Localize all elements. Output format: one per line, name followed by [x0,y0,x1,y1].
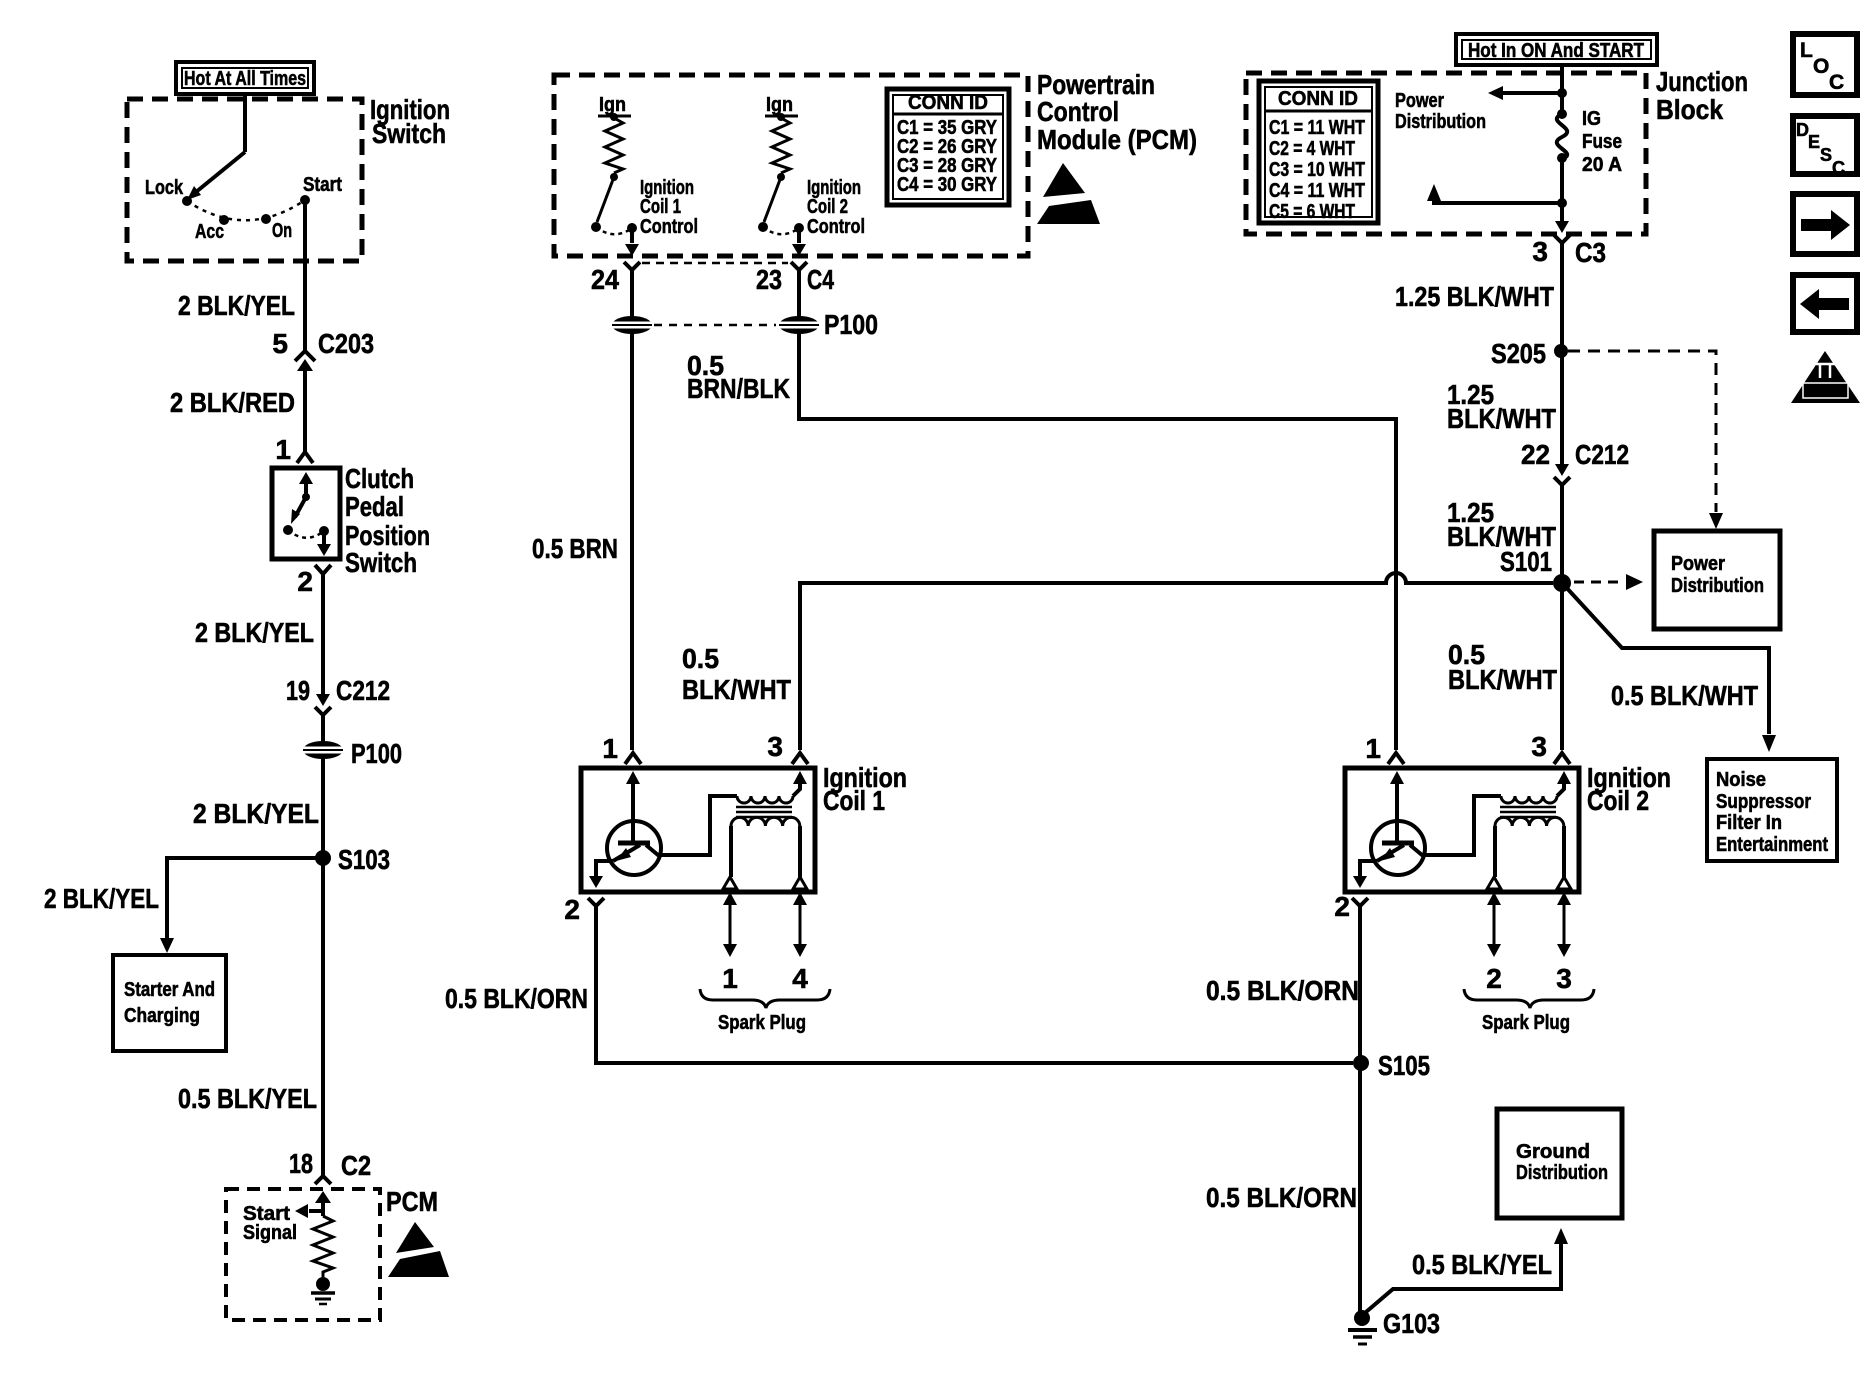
svg-text:Distribution: Distribution [1516,1162,1608,1184]
svg-text:Coil 2: Coil 2 [807,196,848,218]
Start Signal label [243,1203,297,1244]
dashed arrow S101 to Power Distribution [1574,574,1643,590]
svg-text:IG: IG [1582,108,1601,130]
junction node to power distribution arrow [1488,86,1567,100]
coil 2 pin 1 connector [1365,733,1404,764]
wire coil2 pin2 to G103 [1358,906,1362,1311]
svg-text:Block: Block [1656,94,1723,125]
coil 1 pin 3 connector [767,731,808,764]
grommet P100 right [777,309,878,340]
svg-text:Ign: Ign [599,94,626,116]
svg-text:24: 24 [591,264,619,295]
resistor in PCM [313,1216,333,1277]
connector C212 pin 22 [1521,439,1629,485]
svg-text:Coil 2: Coil 2 [1587,785,1649,816]
wire pin2 to C212 [321,574,325,694]
svg-text:BLK/WHT: BLK/WHT [1448,664,1557,695]
svg-text:0.5: 0.5 [682,643,719,674]
wire from Hot At All Times into ignition switch [243,94,247,152]
svg-text:0.5 BLK/WHT: 0.5 BLK/WHT [1611,680,1758,711]
svg-text:1.25 BLK/WHT: 1.25 BLK/WHT [1395,281,1554,312]
pin 1 clutch switch [275,434,313,465]
wire fuse down to exit [1560,158,1564,221]
spark plug brace coil 1 [700,989,830,1034]
svg-text:E: E [1808,132,1820,152]
svg-text:18: 18 [289,1148,313,1179]
svg-text:1: 1 [275,434,291,465]
svg-text:Spark Plug: Spark Plug [718,1012,806,1034]
wire S101 to coil 1 pin 3 (with hop over coil2 wire) [800,573,1553,750]
svg-text:2: 2 [297,566,313,597]
wire P100 to PCM C2 [321,758,325,1175]
svg-text:Noise: Noise [1716,769,1766,791]
svg-text:L: L [1800,39,1813,62]
PCM (bottom) dashed box [226,1189,380,1320]
node S105 [1353,1050,1430,1081]
svg-text:S205: S205 [1491,338,1546,369]
icon DESC [1793,116,1857,178]
svg-text:Distribution: Distribution [1395,111,1486,133]
svg-text:0.5 BLK/YEL: 0.5 BLK/YEL [1412,1249,1552,1280]
fuse IG Fuse 20 A [1557,108,1622,176]
svg-text:C203: C203 [318,328,374,359]
switch driver 2 (coil 2 control) [758,173,806,256]
wire label 1.25 BLK/WHT two lines [1447,497,1556,552]
wire C203 to clutch switch [303,368,307,452]
svg-text:Power: Power [1671,553,1725,575]
svg-text:0.5 BLK/ORN: 0.5 BLK/ORN [1206,1182,1357,1213]
Powertrain Control Module dashed box [554,75,1028,256]
svg-text:Clutch: Clutch [345,463,414,494]
svg-text:Hot In ON And START: Hot In ON And START [1468,40,1644,62]
svg-text:Junction: Junction [1656,66,1748,97]
wire G103 to Ground Distribution [1366,1228,1568,1312]
svg-text:BLK/WHT: BLK/WHT [682,674,791,705]
svg-text:Module (PCM): Module (PCM) [1037,124,1197,155]
wire label 0.5 BLK/WHT coil1 [682,643,791,705]
ground G103 [1348,1308,1440,1344]
grommet P100 left column [301,738,402,769]
svg-text:3: 3 [1532,236,1548,267]
svg-text:Ground: Ground [1516,1141,1590,1163]
junction block dashed box [1246,73,1646,234]
exit arrow at junction box bottom [1555,221,1569,233]
wire C212 to P100 [321,715,325,742]
svg-text:2 BLK/YEL: 2 BLK/YEL [44,883,159,914]
coil 2 spark terminal left [1487,877,1501,889]
svg-text:S101: S101 [1500,546,1552,577]
spark plug lead arrows coil 2 [1486,892,1572,994]
svg-text:Control: Control [1037,96,1119,127]
box Starter And Charging [113,955,226,1051]
svg-text:Coil 1: Coil 1 [823,785,885,816]
node Start [300,195,310,205]
svg-text:0.5 BLK/ORN: 0.5 BLK/ORN [445,983,588,1014]
svg-text:G103: G103 [1383,1308,1440,1339]
wire C3 to S205 [1560,243,1564,464]
transformer T1 in coil 1 [731,771,807,877]
svg-text:19: 19 [286,675,310,706]
label Ignition Coil 1 [823,762,907,816]
grommet face dashed line [654,324,776,327]
icon OBD II triangle [1791,351,1860,403]
svg-text:PCM: PCM [386,1186,438,1217]
svg-text:20 A: 20 A [1582,154,1622,176]
label Ignition Coil 2 Control [807,177,865,238]
svg-text:Distribution: Distribution [1671,575,1764,597]
transformer T2 in coil 2 [1495,771,1571,877]
ground in PCM [311,1277,335,1304]
PCM label Powertrain Control Module [1037,69,1197,155]
wire label 0.5 BRN/BLK [687,350,790,404]
connector C4 pin 24 [591,262,640,295]
svg-text:0.5 BRN: 0.5 BRN [532,533,618,564]
svg-text:1: 1 [722,963,738,994]
node Lock [182,196,192,206]
resistor driver 1 [605,118,623,173]
connector C2 pin 18 [289,1148,371,1184]
clutch pedal position switch box [272,468,340,559]
coil 2 pin 2 connector [1334,891,1368,922]
clutch switch label [345,463,430,578]
connector C212 pin 19 [286,675,390,715]
svg-text:C3 = 10 WHT: C3 = 10 WHT [1269,159,1365,181]
svg-text:S105: S105 [1378,1050,1430,1081]
box Power Distribution (right) [1654,531,1780,629]
svg-text:OBD II: OBD II [1809,386,1843,397]
connector C4 pin 23 [756,262,834,295]
connector C203 pin 5 [272,328,374,371]
svg-text:C2: C2 [341,1150,371,1181]
svg-text:Ign: Ign [766,94,793,116]
svg-text:2: 2 [1486,963,1502,994]
wire Start to C203 [303,200,307,351]
PCM internal start signal circuit [295,1191,331,1218]
ignition switch movable arm (arrow to Lock) [187,152,245,200]
svg-text:S: S [1820,145,1832,165]
svg-text:Power: Power [1395,90,1444,112]
grommet P100 left [610,316,654,334]
svg-text:3: 3 [767,731,783,762]
svg-text:Signal: Signal [243,1222,297,1244]
wire label 0.5 BLK/WHT coil2 [1448,639,1557,695]
svg-text:2: 2 [564,894,580,925]
coil 1 spark terminal right [793,877,807,889]
svg-text:2 BLK/RED: 2 BLK/RED [170,387,295,418]
svg-text:P100: P100 [824,309,878,340]
ESD symbol bottom PCM [388,1222,449,1277]
node S103 [315,844,390,875]
svg-text:Pedal: Pedal [345,491,404,522]
label box "Hot In ON And START" [1456,34,1657,65]
transistor Q1 in coil 1 [589,771,737,888]
svg-text:2: 2 [1334,891,1350,922]
junction node with branch arrow up [1427,184,1567,208]
svg-text:Control: Control [640,216,698,238]
svg-text:Charging: Charging [124,1005,200,1027]
svg-text:Starter And: Starter And [124,979,215,1001]
clutch switch internals [283,472,331,556]
svg-text:0.5 BLK/ORN: 0.5 BLK/ORN [1206,975,1359,1006]
svg-text:Coil 1: Coil 1 [640,196,681,218]
svg-text:CONN ID: CONN ID [908,92,988,114]
node S101 [1500,546,1571,592]
svg-text:Control: Control [807,216,865,238]
resistor driver 2 [772,118,790,173]
svg-text:Entertainment: Entertainment [1716,834,1828,856]
svg-text:3: 3 [1531,731,1547,762]
node Ign driver 2 [765,94,798,121]
wire 0.5 BRN to coil 1 pin 1 [630,333,634,750]
svg-text:BLK/WHT: BLK/WHT [1447,403,1556,434]
wire 0.5 BRN/BLK to coil 2 pin 1 [799,333,1396,750]
svg-text:Filter In: Filter In [1716,812,1782,834]
label Power Distribution (junction block) [1395,90,1486,133]
svg-text:C4 = 11 WHT: C4 = 11 WHT [1269,180,1365,202]
svg-text:C3: C3 [1575,237,1606,268]
icon arrow right [1793,194,1857,254]
wire hot feed into junction block [1560,65,1564,114]
node On [261,214,271,224]
svg-text:BRN/BLK: BRN/BLK [687,373,790,404]
svg-text:C: C [1832,158,1845,178]
svg-text:23: 23 [756,264,782,295]
svg-text:Lock: Lock [145,177,184,199]
svg-text:Start: Start [303,174,342,196]
svg-text:1: 1 [1365,733,1381,764]
svg-text:P100: P100 [351,738,402,769]
icon arrow left [1793,275,1857,332]
svg-text:On: On [272,220,292,242]
svg-text:Acc: Acc [195,221,224,243]
pin 2 clutch switch [297,565,331,597]
spark plug lead arrows coil 1 [722,892,808,994]
coil 2 pin 3 connector [1531,731,1570,764]
wire label 1.25 BLK/WHT two lines [1447,379,1556,434]
ESD symbol top PCM [1037,163,1100,224]
spark plug brace coil 2 [1464,989,1594,1034]
box Ground Distribution [1497,1109,1622,1218]
wire coil1 pin2 to S105 [596,906,1353,1063]
ignition coil 1 box [581,768,815,892]
svg-text:C1 = 11 WHT: C1 = 11 WHT [1269,117,1365,139]
svg-text:C212: C212 [336,675,390,706]
svg-text:Switch: Switch [345,547,417,578]
coil 1 pin 1 connector [602,733,641,764]
label box "Hot At All Times" [176,62,314,94]
label Ignition Coil 2 [1587,762,1671,816]
svg-text:CONN ID: CONN ID [1278,88,1358,110]
svg-text:Hot At All Times: Hot At All Times [184,68,306,90]
svg-text:Suppressor: Suppressor [1716,791,1811,813]
junction block label [1656,66,1748,125]
svg-text:0.5 BLK/YEL: 0.5 BLK/YEL [178,1083,317,1114]
svg-text:C4: C4 [807,264,834,295]
icon LOC [1793,34,1857,95]
connector C4 face dashed line [642,262,788,265]
transistor Q2 in coil 2 [1353,771,1501,888]
ignition coil 2 box [1345,768,1579,892]
svg-text:C212: C212 [1575,439,1629,470]
svg-text:C2 = 4 WHT: C2 = 4 WHT [1269,138,1355,160]
ignition switch label [370,94,450,149]
svg-text:5: 5 [272,328,288,359]
wire pin24 to P100 [630,270,634,317]
svg-text:O: O [1813,55,1829,78]
coil 1 spark terminal left [723,877,737,889]
switch driver 1 (coil 1 control) [591,173,639,256]
node Acc [219,215,229,225]
svg-text:3: 3 [1556,963,1572,994]
svg-text:1: 1 [602,733,618,764]
connector C3 pin 3 [1532,235,1606,268]
svg-text:2 BLK/YEL: 2 BLK/YEL [178,290,295,321]
wire C212 to S101 and coil 2 pin 3 [1560,485,1564,750]
svg-text:C: C [1829,71,1844,94]
CONN ID table PCM [887,89,1009,205]
svg-text:22: 22 [1521,439,1550,470]
node Ign driver 1 [598,94,631,121]
svg-text:Spark Plug: Spark Plug [1482,1012,1570,1034]
coil 1 pin 2 connector [564,894,604,925]
coil 2 spark terminal right [1557,877,1571,889]
svg-text:2 BLK/YEL: 2 BLK/YEL [193,798,319,829]
svg-text:2 BLK/YEL: 2 BLK/YEL [195,617,314,648]
wire S101 to Noise Suppressor [1564,585,1776,752]
svg-text:C4 = 30 GRY: C4 = 30 GRY [897,174,998,196]
svg-text:4: 4 [792,963,808,994]
dashed wire S205 to Power Distribution box [1568,351,1723,529]
svg-text:C5 = 6 WHT: C5 = 6 WHT [1269,201,1355,223]
contact labels Lock Acc On Start [145,174,342,243]
label Ignition Coil 1 Control [640,177,698,238]
svg-text:Fuse: Fuse [1582,131,1622,153]
wire branch S103 to Starter And Charging [160,858,323,953]
CONN ID table junction block [1259,81,1378,223]
node S205 [1491,338,1568,369]
ignition switch dashed box [127,99,362,261]
switch detent arc [187,200,305,220]
svg-text:Switch: Switch [372,118,446,149]
wire pin23 to P100 [797,270,801,317]
box Noise Suppressor Filter In Entertainment [1707,759,1837,861]
svg-text:S103: S103 [338,844,390,875]
